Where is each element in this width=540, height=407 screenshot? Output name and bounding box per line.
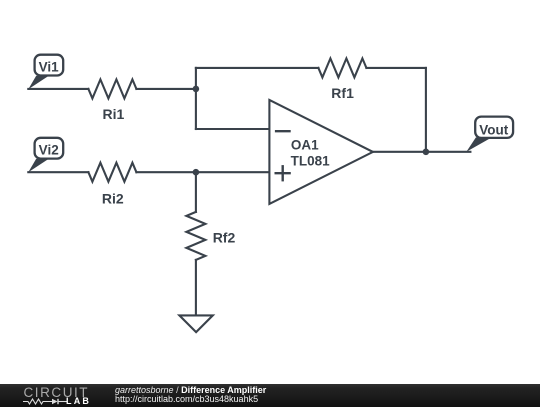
- wire Ri1 to node A: [136, 88, 196, 90]
- svg-text:Vi1: Vi1: [39, 60, 60, 75]
- net flag Vi1: [28, 55, 63, 90]
- resistor Ri1: [88, 79, 136, 122]
- footer bar: [0, 384, 540, 407]
- wire feedback top left: [196, 67, 319, 69]
- wire feedback right vertical: [425, 68, 427, 152]
- CircuitLab logo wordmark: [24, 388, 90, 398]
- resistor Rf1: [318, 58, 366, 101]
- node B junction: [193, 169, 200, 176]
- resistor Rf2: [186, 212, 235, 260]
- svg-text:Ri1: Ri1: [103, 106, 125, 122]
- ground: [179, 315, 212, 332]
- footer url line: [115, 394, 258, 404]
- svg-text:Vout: Vout: [479, 122, 508, 137]
- net flag Vout: [466, 117, 513, 152]
- CircuitLab logo symbol row: [23, 398, 69, 405]
- wire Ri2 to non-inverting input: [136, 171, 269, 173]
- svg-text:TL081: TL081: [291, 154, 331, 169]
- output node junction: [423, 148, 430, 155]
- wire op-amp output: [373, 151, 471, 153]
- wire Vi1 to Ri1: [28, 88, 88, 90]
- wire feedback top right: [366, 67, 426, 69]
- logo LAB: [66, 396, 91, 406]
- wire node B down to Rf2: [195, 172, 197, 212]
- resistor Ri2: [88, 163, 136, 207]
- svg-text:Rf1: Rf1: [331, 85, 354, 101]
- wire to inverting input: [196, 128, 270, 130]
- footer title line: [115, 385, 266, 395]
- wire Vi2 to Ri2: [28, 171, 88, 173]
- op-amp OA1: [269, 100, 373, 204]
- wire node A vertical to inverting input level: [195, 68, 197, 129]
- node A junction: [193, 86, 200, 93]
- svg-text:Ri2: Ri2: [102, 190, 124, 206]
- net flag Vi2: [28, 138, 63, 173]
- non-inverting input plus: [276, 172, 290, 174]
- svg-text:Vi2: Vi2: [39, 143, 59, 158]
- svg-text:OA1: OA1: [291, 138, 319, 153]
- wire Rf2 to ground: [195, 260, 197, 316]
- svg-text:Rf2: Rf2: [213, 229, 236, 245]
- inverting input minus: [276, 130, 289, 132]
